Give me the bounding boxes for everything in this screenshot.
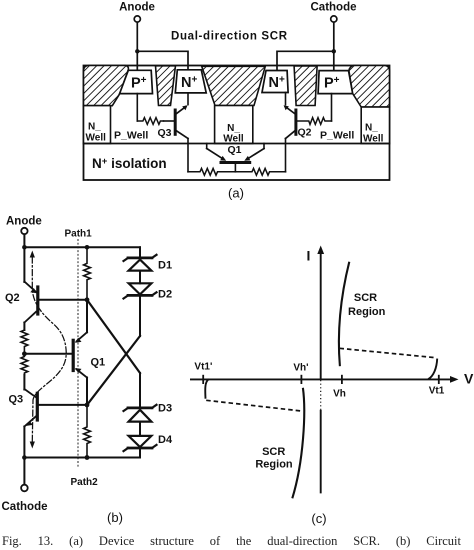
- resistor isolation left: [188, 168, 235, 175]
- wire cathode branch to N+: [277, 51, 334, 70]
- SCR holding curve upper: [339, 262, 349, 366]
- N_Well box right: [361, 107, 389, 145]
- svg-text:Path1: Path1: [65, 229, 93, 240]
- svg-text:P_Well: P_Well: [114, 130, 148, 142]
- diode D1: [124, 255, 173, 272]
- svg-text:Vt1: Vt1: [429, 386, 445, 397]
- anode label: [6, 216, 42, 228]
- P_Well label right: [320, 130, 354, 142]
- I axis: [317, 246, 324, 380]
- P+ region anode: [120, 70, 153, 93]
- wire to Q3 base: [164, 120, 176, 122]
- svg-text:Cathode: Cathode: [311, 2, 357, 14]
- subfigure label (b): [107, 510, 123, 525]
- N_Well box center: [215, 106, 253, 145]
- svg-text:Vh: Vh: [333, 389, 346, 400]
- svg-text:(a): (a): [228, 186, 244, 201]
- subfigure label (a): [228, 186, 244, 201]
- tick Vt1: [429, 375, 445, 397]
- subfigure label (c): [311, 511, 326, 526]
- snapback dashed lower: [206, 400, 300, 411]
- SCR Region label lower: [255, 446, 293, 471]
- I axis label: [307, 248, 311, 264]
- oxide hatch right-inner: [294, 66, 317, 106]
- svg-text:Q3: Q3: [9, 394, 24, 406]
- oxide hatch center: [202, 66, 266, 105]
- transistor Q1: [207, 144, 264, 172]
- svg-text:D4: D4: [158, 434, 173, 446]
- cathode terminal: [21, 485, 28, 492]
- svg-text:Dual-direction SCR: Dual-direction SCR: [171, 31, 288, 43]
- resistor left R1: [21, 330, 28, 354]
- tick Vh': [293, 363, 308, 385]
- Path1 label: [65, 229, 93, 240]
- wire Q3 collector down: [187, 139, 189, 172]
- svg-text:D1: D1: [158, 260, 172, 272]
- resistor bottom middle: [84, 405, 91, 458]
- svg-text:Q2: Q2: [298, 127, 312, 139]
- current path dash-dot curve with arrows: [30, 251, 67, 449]
- transistor Q2: [284, 93, 312, 139]
- wire top rail: [24, 246, 140, 248]
- node base junction: [22, 351, 27, 356]
- title Dual-direction SCR: [171, 31, 288, 43]
- transistor Q3: [158, 93, 189, 139]
- wire Q2 collector down: [285, 139, 287, 172]
- diode D4: [124, 434, 173, 451]
- resistor R_PWell left: [137, 118, 163, 125]
- snapback dashed upper: [340, 348, 435, 357]
- svg-text:SCR: SCR: [354, 292, 377, 304]
- svg-text:Path2: Path2: [71, 477, 99, 488]
- svg-text:N+ isolation: N+ isolation: [92, 156, 167, 171]
- svg-text:(b): (b): [107, 510, 123, 525]
- node C junction: [85, 403, 90, 408]
- wire anode rail upper: [23, 247, 25, 282]
- svg-text:Vt1': Vt1': [194, 362, 212, 373]
- wire anode branch to N+: [137, 51, 188, 70]
- wire P+ anode down: [136, 94, 138, 121]
- wire cross node B to D3: [87, 300, 140, 373]
- V axis: [190, 376, 459, 383]
- wire bottom rail: [24, 457, 140, 459]
- wire Q1 base: [24, 353, 73, 355]
- diode D2: [124, 283, 173, 300]
- node anode: [22, 245, 27, 250]
- svg-text:Region: Region: [255, 459, 293, 471]
- wire cathode to P+: [333, 22, 335, 70]
- wire left rail lower: [23, 427, 25, 485]
- svg-text:Q1: Q1: [91, 357, 106, 369]
- P_Well label left: [114, 130, 148, 142]
- wire D1-D2: [139, 271, 141, 284]
- svg-text:V: V: [464, 371, 474, 387]
- oxide hatch outer-left: [84, 66, 129, 106]
- svg-text:SCR: SCR: [262, 446, 285, 458]
- tick Vt1': [194, 362, 212, 385]
- N+ isolation label: [92, 156, 167, 171]
- wire D2 down: [139, 295, 141, 336]
- resistor R_PWell right: [296, 118, 332, 125]
- svg-text:N_: N_: [227, 123, 240, 134]
- wire Q1 lower to node C: [86, 378, 88, 405]
- oxide hatch outer-right: [349, 66, 390, 108]
- SCR holding curve lower: [292, 388, 304, 499]
- svg-text:Cathode: Cathode: [2, 501, 48, 513]
- wire cross D2 to node C: [87, 336, 140, 405]
- svg-text:I: I: [307, 248, 311, 264]
- node anode junction: [135, 49, 139, 53]
- cathode terminal circle: [331, 16, 337, 22]
- wire diode branch top: [139, 247, 141, 258]
- wells bottom boundary: [84, 143, 390, 145]
- wire D3-D4: [139, 422, 141, 436]
- tick Vh: [333, 375, 346, 400]
- anode terminal label: [119, 2, 155, 14]
- svg-text:Well: Well: [86, 133, 107, 144]
- wire Q2 base: [39, 299, 87, 301]
- N+ region anode: [175, 70, 206, 93]
- N+ region cathode: [262, 71, 288, 93]
- svg-text:Q3: Q3: [158, 127, 172, 139]
- svg-text:(c): (c): [311, 511, 326, 526]
- wire P+ cathode down: [331, 94, 333, 121]
- wire anode lead: [23, 234, 25, 247]
- trigger curve at Vt1': [205, 379, 209, 399]
- svg-text:Region: Region: [348, 306, 386, 318]
- wire Q3 base: [39, 404, 87, 406]
- svg-text:Q2: Q2: [5, 292, 20, 304]
- node cathode junction: [332, 49, 336, 53]
- transistor Q1: [73, 332, 105, 377]
- wire left rail to R1: [23, 323, 25, 331]
- svg-text:D2: D2: [158, 289, 172, 301]
- negative I axis dotted: [320, 380, 322, 410]
- wire anode to P+: [136, 22, 138, 70]
- node top middle: [85, 245, 90, 250]
- svg-text:Anode: Anode: [119, 2, 155, 14]
- Path2 label: [71, 477, 99, 488]
- node cathode: [22, 455, 27, 460]
- cathode label: [2, 501, 48, 513]
- negative I axis solid: [320, 410, 322, 494]
- wire left rail mid: [23, 375, 25, 390]
- N_Well box left: [84, 106, 111, 144]
- Path1-Path2 dotted axis: [77, 240, 79, 468]
- resistor left R2: [21, 354, 28, 375]
- resistor isolation right: [235, 168, 285, 175]
- svg-text:N_: N_: [365, 123, 378, 134]
- transistor Q2: [5, 282, 38, 323]
- svg-text:P_Well: P_Well: [320, 130, 354, 142]
- anode terminal: [21, 228, 27, 234]
- trigger curve at Vt1: [428, 359, 437, 380]
- svg-text:D3: D3: [158, 403, 172, 415]
- wire node B down to Q1: [86, 300, 88, 333]
- diode D3: [124, 403, 173, 422]
- resistor top middle: [84, 247, 91, 299]
- node B junction: [85, 297, 90, 302]
- cathode terminal label: [311, 2, 357, 14]
- V axis label: [464, 371, 474, 387]
- wire to D3: [139, 373, 141, 408]
- svg-text:Q1: Q1: [227, 144, 241, 156]
- oxide hatch left-inner: [156, 66, 176, 106]
- transistor Q3: [9, 389, 38, 427]
- svg-text:Vh': Vh': [293, 363, 308, 374]
- wire D4 to bottom rail: [139, 448, 141, 458]
- svg-text:N_: N_: [88, 122, 101, 133]
- device outer box: [84, 66, 390, 181]
- anode terminal circle: [134, 16, 140, 22]
- node bottom middle: [85, 455, 90, 460]
- SCR Region label upper: [348, 292, 386, 318]
- svg-text:Anode: Anode: [6, 216, 42, 228]
- P+ region cathode: [318, 71, 353, 94]
